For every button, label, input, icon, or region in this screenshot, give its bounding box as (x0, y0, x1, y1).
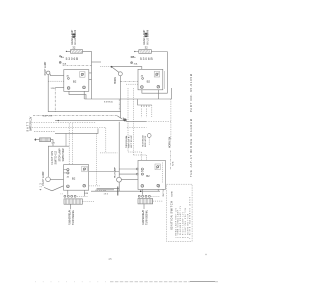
svg-text:4 1 2: 4 1 2 (40, 182, 42, 190)
svg-text:52B: 52B (51, 88, 55, 90)
svg-text:4 1 2 0 3 B: 4 1 2 0 3 B (95, 190, 106, 192)
svg-text:B+: B+ (61, 56, 65, 59)
svg-text:B1: B1 (158, 185, 160, 187)
svg-text:30A: 30A (62, 62, 66, 65)
svg-text:B+: B+ (133, 56, 137, 59)
svg-text:IGNITION SWITCH: IGNITION SWITCH (169, 201, 173, 230)
svg-text:B2: B2 (146, 174, 150, 178)
svg-text:45: 45 (141, 171, 144, 173)
svg-text:HORN: HORN (115, 77, 117, 84)
svg-text:HI-LO BEAM: HI-LO BEAM (145, 30, 149, 45)
svg-text:45: 45 (66, 75, 69, 77)
svg-text:INDICATOR: INDICATOR (144, 135, 147, 147)
svg-text:32: 32 (145, 46, 148, 50)
svg-text:TURN SIGNAL: TURN SIGNAL (72, 209, 75, 225)
svg-text:SWITCH 4W: SWITCH 4W (62, 148, 65, 162)
svg-text:HORN SW: HORN SW (169, 136, 171, 148)
svg-text:PILOT LAMP: PILOT LAMP (44, 61, 47, 75)
svg-text:30A: 30A (134, 63, 138, 66)
svg-text:12V: 12V (51, 143, 55, 145)
svg-text:PILOT LAMP: PILOT LAMP (114, 166, 117, 178)
svg-text:45: 45 (67, 176, 70, 178)
svg-text:24B: 24B (85, 193, 89, 195)
svg-text:× ×: × × (60, 193, 63, 196)
svg-text:45: 45 (108, 257, 112, 261)
svg-text:LEFT RIGHT: LEFT RIGHT (131, 135, 133, 148)
svg-text:45: 45 (141, 75, 144, 77)
svg-text:B2: B2 (147, 79, 151, 83)
svg-text:SWITCH 12: SWITCH 12 (54, 150, 57, 164)
svg-text:S2 B: S2 B (173, 161, 175, 166)
svg-text:PART NO: PART NO (162, 188, 165, 196)
svg-text:NOTE: NOTE (171, 190, 173, 196)
svg-text:7 WIRE HARNESS ASSY: 7 WIRE HARNESS ASSY (189, 196, 192, 239)
svg-text:THE JAY-AT WIRING DIAGRAM P: THE JAY-AT WIRING DIAGRAM PART NO. 95-61… (189, 73, 193, 177)
svg-text:5306B: 5306B (66, 57, 79, 61)
svg-text:B2: B2 (72, 177, 76, 181)
svg-text:1 8 5: 1 8 5 (104, 193, 109, 195)
svg-text:HI-LO BEAM: HI-LO BEAM (73, 30, 77, 45)
svg-text:B2: B2 (73, 79, 77, 83)
svg-text:B M W (A: B M W (A (104, 100, 113, 103)
svg-text:5306B: 5306B (140, 57, 153, 61)
svg-text:30A FUSE: 30A FUSE (43, 115, 53, 118)
svg-text:PILOT LAMP: PILOT LAMP (42, 171, 45, 185)
svg-text:TURN SIGNAL: TURN SIGNAL (146, 209, 149, 225)
svg-text:32: 32 (72, 46, 75, 50)
svg-text:BATTERY 12V: BATTERY 12V (29, 116, 32, 131)
